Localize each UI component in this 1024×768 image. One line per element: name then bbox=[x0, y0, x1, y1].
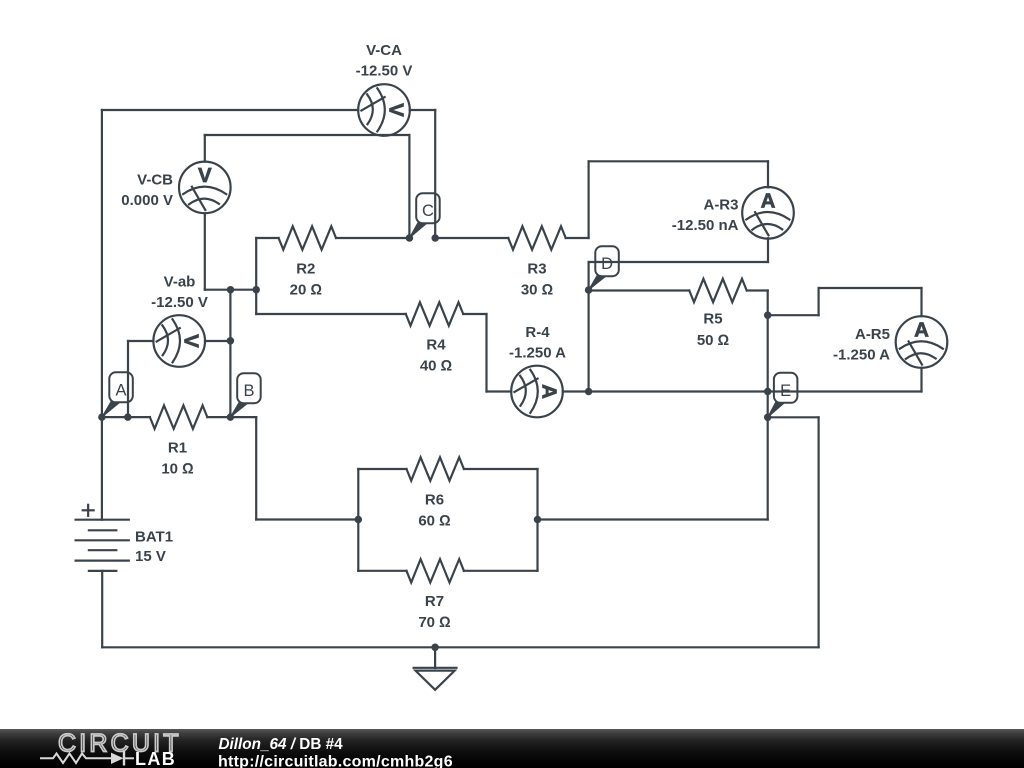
svg-text:R2: R2 bbox=[296, 260, 315, 277]
wire A-R3 return bbox=[589, 261, 768, 263]
svg-text:http://circuitlab.com/cmhb2g6: http://circuitlab.com/cmhb2g6 bbox=[218, 753, 453, 768]
node D label badge bbox=[589, 246, 619, 290]
junction R6R7 left bbox=[355, 516, 363, 524]
wire drop to R6R7 bbox=[255, 417, 257, 519]
svg-text:10 Ω: 10 Ω bbox=[161, 460, 193, 477]
node C junction bbox=[406, 234, 414, 242]
wire A-R5 loop out bbox=[768, 314, 819, 316]
resistor R4 (40 &#8486;) bbox=[406, 302, 487, 374]
wire R-4 meter left lead bbox=[487, 390, 512, 392]
junction V-ab row left bbox=[227, 286, 235, 294]
svg-text:0.000 V: 0.000 V bbox=[121, 192, 173, 209]
junction C right bbox=[431, 234, 439, 242]
wire A-R5 loop top bbox=[819, 287, 922, 289]
svg-text:60 Ω: 60 Ω bbox=[418, 512, 450, 529]
junction R6R7 right bbox=[534, 516, 542, 524]
svg-text:A-R3: A-R3 bbox=[703, 197, 738, 214]
footer bar bbox=[0, 729, 1024, 768]
svg-text:A-R5: A-R5 bbox=[855, 326, 890, 343]
svg-text:A: A bbox=[914, 319, 929, 342]
voltmeter V-ab bbox=[153, 315, 205, 367]
resistor R6 (60 &#8486;) bbox=[358, 457, 537, 529]
junction V-ab row right bbox=[252, 286, 260, 294]
node E label badge bbox=[768, 373, 798, 418]
node B label badge bbox=[230, 373, 260, 417]
svg-text:LAB: LAB bbox=[135, 749, 176, 768]
wire A-R5 top lead bbox=[920, 288, 922, 316]
svg-text:C: C bbox=[422, 202, 434, 220]
svg-text:BAT1: BAT1 bbox=[135, 529, 173, 546]
svg-text:-12.50 nA: -12.50 nA bbox=[672, 217, 739, 234]
junction A-R5 out bbox=[764, 311, 772, 319]
resistor R3 (30 &#8486;) bbox=[435, 226, 588, 298]
junction V-ab meter right bbox=[227, 337, 235, 345]
wire bottom rail bbox=[102, 646, 818, 648]
ammeter A-R3 bbox=[742, 187, 794, 239]
battery BAT1 15 V bbox=[76, 505, 173, 571]
junction V-ab left drop bbox=[124, 413, 132, 421]
wire V-ab right lead bbox=[205, 340, 230, 342]
voltmeter V-CA bbox=[358, 84, 410, 136]
wire V-CB top lead bbox=[204, 135, 206, 162]
wire E to right loop bbox=[768, 416, 819, 418]
voltmeter V-CB bbox=[179, 162, 231, 214]
node A label badge bbox=[102, 372, 133, 417]
resistor R2 (20 &#8486;) bbox=[256, 226, 409, 298]
svg-text:Dillon_64 / DB #4: Dillon_64 / DB #4 bbox=[219, 736, 344, 753]
node E junction bbox=[764, 414, 772, 422]
svg-text:R3: R3 bbox=[527, 260, 546, 277]
svg-text:B: B bbox=[243, 382, 254, 400]
wire R-4 meter right to A-R5 return bbox=[563, 390, 922, 392]
svg-text:R4: R4 bbox=[426, 336, 446, 353]
wire A-R3 loop left bbox=[587, 161, 589, 238]
ammeter R-4 bbox=[511, 366, 563, 418]
svg-text:V-ab: V-ab bbox=[164, 273, 196, 290]
wire A-R3 bottom lead bbox=[767, 238, 769, 262]
node D junction bbox=[585, 286, 593, 294]
svg-text:V-CB: V-CB bbox=[137, 172, 173, 189]
junction ground bbox=[431, 644, 439, 652]
wire A-R3 loop top bbox=[589, 160, 768, 162]
wire B to drop bbox=[230, 416, 256, 418]
svg-text:R5: R5 bbox=[703, 311, 722, 328]
svg-text:R1: R1 bbox=[168, 439, 187, 456]
svg-text:A: A bbox=[761, 189, 776, 212]
wire V-ab left drop bbox=[127, 341, 129, 417]
wire V-CA right bbox=[410, 109, 435, 111]
wire top rail to V-CA left bbox=[102, 109, 358, 111]
wire battery bottom lead bbox=[101, 571, 103, 647]
wire V-CB bottom lead bbox=[204, 213, 206, 290]
wire R2/R4 left vertical bbox=[255, 238, 257, 314]
resistor R7 (70 &#8486;) bbox=[358, 559, 537, 631]
svg-text:A: A bbox=[116, 381, 127, 399]
wire A-R5 loop jog bbox=[817, 288, 819, 315]
wire R5 right vertical bbox=[767, 291, 769, 520]
resistor R1 (10 &#8486;) bbox=[102, 405, 231, 477]
svg-text:20 Ω: 20 Ω bbox=[290, 281, 322, 298]
resistor R5 (50 &#8486;) bbox=[589, 279, 768, 349]
svg-text:40 Ω: 40 Ω bbox=[420, 357, 452, 374]
svg-text:D: D bbox=[601, 255, 613, 273]
CircuitLab logo zigzag and diode bbox=[41, 754, 111, 764]
wire R6R7 left vertical bbox=[357, 469, 359, 571]
wire R6R7 right vertical bbox=[536, 469, 538, 571]
svg-text:70 Ω: 70 Ω bbox=[418, 614, 450, 631]
wire node B vertical bbox=[229, 290, 231, 417]
svg-text:-1.250 A: -1.250 A bbox=[833, 347, 890, 364]
svg-text:-12.50 V: -12.50 V bbox=[151, 294, 208, 311]
wire V-ab left lead bbox=[128, 340, 153, 342]
svg-text:V-CA: V-CA bbox=[366, 42, 402, 59]
wire R6R7 right node to E vertical bbox=[538, 518, 768, 520]
node C label badge bbox=[409, 193, 439, 238]
svg-text:50 Ω: 50 Ω bbox=[697, 332, 729, 349]
junction A-R5 return bbox=[764, 388, 772, 396]
svg-text:R-4: R-4 bbox=[525, 324, 550, 341]
svg-text:A: A bbox=[537, 384, 560, 399]
wire V-ab row bbox=[205, 289, 256, 291]
svg-text:R6: R6 bbox=[425, 491, 444, 508]
wire left rail bbox=[101, 110, 103, 520]
wire V-CA down to node C bbox=[434, 110, 436, 238]
wire A-R5 bottom lead bbox=[920, 368, 922, 392]
wire A-R3 top lead bbox=[767, 161, 769, 187]
svg-text:-1.250 A: -1.250 A bbox=[509, 345, 566, 362]
wire down to node C left bbox=[408, 135, 410, 238]
wire right loop vertical bbox=[817, 417, 819, 647]
svg-text:V: V bbox=[198, 164, 212, 187]
wire V-CB top horizontal bbox=[205, 134, 410, 136]
svg-text:V: V bbox=[384, 103, 407, 117]
svg-text:-12.50 V: -12.50 V bbox=[356, 63, 413, 80]
wire R4 right drop bbox=[485, 314, 487, 392]
node A junction bbox=[98, 413, 106, 421]
svg-text:30 Ω: 30 Ω bbox=[521, 281, 553, 298]
svg-text:V: V bbox=[180, 334, 203, 348]
wire R4 left lead row bbox=[256, 313, 406, 315]
wire D down to R-4 row bbox=[587, 290, 589, 392]
node B junction bbox=[227, 413, 235, 421]
wire to node D bbox=[587, 262, 589, 290]
ground bbox=[414, 647, 457, 690]
ammeter A-R5 bbox=[896, 316, 948, 368]
svg-text:15 V: 15 V bbox=[135, 548, 166, 565]
junction R-4 right bbox=[585, 388, 593, 396]
wire to R6R7 left node bbox=[256, 518, 358, 520]
svg-text:R7: R7 bbox=[425, 593, 444, 610]
